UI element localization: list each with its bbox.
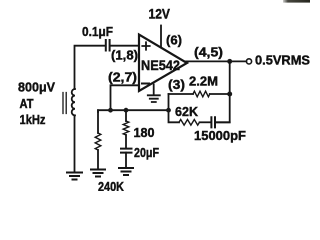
- svg-text:0.5VRMS: 0.5VRMS: [255, 52, 310, 67]
- wire 0.1uF cap to op-amp + input (1,8): [111, 45, 139, 47]
- inductor core bars: [63, 93, 66, 114]
- wire output to terminal: [186, 60, 246, 62]
- wire feedback left vertical: [169, 94, 180, 122]
- svg-text:AT: AT: [20, 96, 34, 111]
- capacitor C 20uF plates: [121, 149, 132, 153]
- wire 2.2M row right: [210, 93, 230, 95]
- wire 2.2M row left: [169, 93, 194, 95]
- svg-text:2.2M: 2.2M: [189, 73, 218, 88]
- svg-text:62K: 62K: [175, 104, 199, 119]
- wire 180 to 20uF: [125, 135, 127, 148]
- svg-text:12V: 12V: [149, 5, 171, 21]
- output terminal open circle: [246, 59, 251, 64]
- wire right feedback bus: [216, 61, 229, 122]
- wire 20uF to ground: [125, 153, 127, 167]
- resistor R 62K: [179, 120, 199, 126]
- wire bottom bus: [98, 110, 169, 112]
- resistor R 240K: [95, 133, 101, 150]
- op-amp U1 NE542 triangle: [139, 35, 187, 92]
- ground (input coil): [67, 173, 82, 180]
- op-amp + input symbol: [142, 42, 149, 49]
- resistor R 180: [123, 121, 129, 135]
- svg-text:NE542: NE542: [141, 57, 180, 73]
- svg-text:(4,5): (4,5): [194, 44, 223, 59]
- wire 240K branch: [97, 110, 99, 133]
- node junction bus / inverting input: [108, 108, 113, 113]
- wire 15000pF to right bus: [216, 121, 230, 123]
- node junction bus / 180 branch: [124, 108, 129, 113]
- resistor R 2.2M: [193, 91, 210, 97]
- wire op-amp ground stem pin: [153, 85, 155, 95]
- inductor input coil: [72, 89, 75, 115]
- svg-text:180: 180: [134, 125, 155, 140]
- svg-text:20μF: 20μF: [134, 145, 159, 160]
- wire op-amp inverting input (2,7): [111, 85, 140, 109]
- svg-text:800μV: 800μV: [18, 79, 55, 94]
- svg-text:(1,8): (1,8): [111, 47, 138, 62]
- capacitor C 0.1uF plates: [106, 40, 110, 51]
- ground (20uF): [119, 168, 133, 175]
- wire 180 branch: [125, 110, 127, 121]
- svg-text:0.1μF: 0.1μF: [82, 24, 113, 39]
- ground (240K): [91, 170, 105, 177]
- node junction feedback / bus: [166, 108, 171, 113]
- op-amp - input symbol: [142, 83, 149, 85]
- wire coil bottom to ground: [74, 115, 76, 171]
- svg-text:(6): (6): [166, 32, 182, 47]
- capacitor C 15000pF plates: [211, 117, 215, 127]
- wire input top: coil top to 0.1uF cap: [75, 46, 105, 89]
- svg-text:(3): (3): [168, 77, 185, 92]
- wire 62K to 15000pF: [200, 121, 211, 123]
- supply wire 12V to pin (6): [160, 26, 162, 47]
- ground (op-amp): [148, 95, 160, 102]
- svg-text:240K: 240K: [98, 180, 124, 191]
- wire 240K to ground: [97, 150, 99, 169]
- svg-text:15000pF: 15000pF: [194, 128, 246, 143]
- node junction output / feedback bus: [227, 59, 232, 64]
- svg-text:(2,7): (2,7): [108, 69, 137, 84]
- svg-text:1kHz: 1kHz: [20, 112, 46, 127]
- node junction 2.2M / right bus: [227, 92, 232, 97]
